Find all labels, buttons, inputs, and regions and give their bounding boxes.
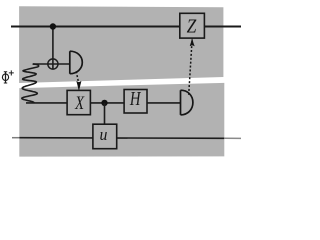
svg-text:H: H — [129, 88, 142, 109]
wire middle qubit — [26, 102, 180, 104]
wire EPR upper segment — [33, 63, 70, 65]
Bob zone background band — [19, 83, 224, 157]
svg-text:u: u — [100, 124, 108, 144]
gate X — [67, 90, 90, 114]
arrowhead into Z gate — [190, 39, 194, 46]
CNOT target — [48, 59, 58, 69]
classical dashed wire M2 to Z — [189, 46, 192, 95]
measurement M1 — [70, 51, 83, 73]
control dot on middle wire — [101, 100, 107, 106]
wire bottom qubit — [12, 137, 20, 139]
Alice zone background band — [19, 6, 223, 83]
classical dashed wire M1 to X — [76, 71, 78, 81]
label Phi+ — [2, 72, 8, 83]
EPR squiggle — [22, 64, 39, 103]
control vertical wire to u gate — [104, 103, 106, 124]
svg-text:X: X — [74, 92, 84, 113]
gate Z — [180, 13, 205, 38]
arrowhead into X gate — [77, 81, 81, 90]
CNOT control dot — [50, 23, 56, 29]
measurement M2 — [181, 90, 193, 115]
gate H — [124, 90, 147, 114]
svg-text:Z: Z — [187, 15, 197, 37]
wire top qubit — [11, 26, 241, 28]
CNOT control vertical wire — [52, 27, 54, 70]
label Phi+ superscript — [9, 70, 14, 75]
gate u — [93, 124, 117, 149]
